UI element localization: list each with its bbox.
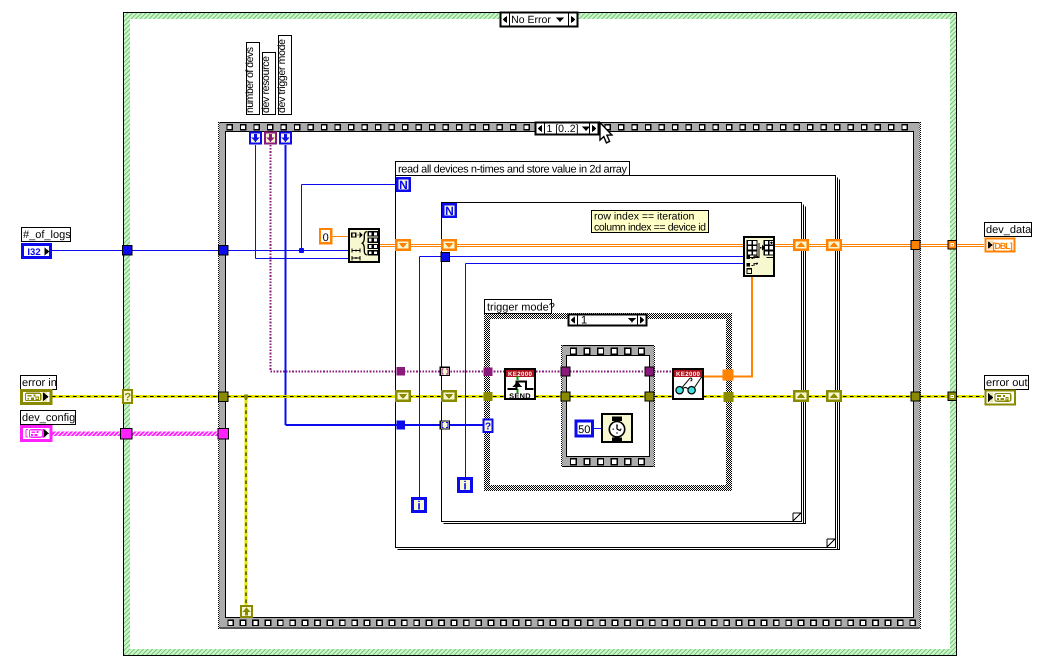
case selector terminal ? (123, 390, 132, 404)
svg-text:dev trigger mode: dev trigger mode (276, 39, 288, 113)
subVI: KE2000 read (673, 369, 703, 399)
svg-text:dev resource: dev resource (260, 56, 272, 113)
sequence selector label: 1 [0..2] (536, 122, 599, 135)
tunnel: error out of case (724, 392, 734, 402)
label: dev trigger mode (276, 36, 292, 115)
control terminal: # of_logs I32 (23, 245, 51, 258)
case selector label: No Error (501, 12, 578, 27)
case selector label: 1 (569, 314, 647, 327)
wire: error cluster main run (52, 395, 984, 398)
svg-text:[DBL]: [DBL] (993, 241, 1013, 251)
svg-text:dev_config: dev_config (22, 412, 75, 424)
sequence local: dev trigger mode (280, 133, 291, 144)
N terminal (inner loop) (443, 204, 456, 218)
comment: row/column index note (592, 211, 709, 234)
case structure: No Error (outer) (124, 13, 957, 656)
tunnel: error out of sequence (911, 392, 920, 401)
svg-text:KE2000: KE2000 (676, 371, 701, 378)
mouse cursor (600, 123, 612, 143)
svg-text:?: ? (124, 392, 131, 404)
wire: error through inner sequence (570, 395, 645, 398)
shift register right (error, outer loop) (827, 391, 841, 401)
function: Initialize Array (349, 229, 379, 262)
tunnel: VISA into case (484, 367, 493, 376)
indexing tunnel: VISA on inner loop (440, 367, 449, 375)
svg-text:50: 50 (578, 424, 590, 436)
svg-text:1 [0..2]: 1 [0..2] (546, 123, 578, 135)
numeric constant 50 (576, 421, 593, 436)
N terminal (outer loop) (397, 178, 410, 192)
label: # of_logs (22, 228, 72, 242)
label: error in (21, 376, 57, 390)
sequence local: number of devs (250, 133, 261, 144)
function: Replace Array Subset (744, 237, 774, 276)
label: trigger mode? (485, 300, 555, 314)
tunnel: error in (inner sequence) (561, 392, 570, 401)
sequence local: error (bottom) (241, 606, 252, 617)
tunnel: VISA array into outer loop (397, 367, 406, 376)
svg-text:KE2000: KE2000 (508, 371, 533, 378)
tunnel: dev_config into sequence (218, 429, 229, 440)
tunnel: VISA out (inner sequence) (645, 367, 654, 376)
wire: error branch to sequence local (244, 394, 248, 606)
tunnel: value out of case (723, 370, 734, 381)
svg-text:read all devices n-times and s: read all devices n-times and store value… (398, 164, 628, 176)
svg-text:#_of_logs: #_of_logs (23, 229, 71, 241)
control terminal: dev_config (22, 427, 52, 441)
tunnel: # of_logs into case (123, 246, 133, 256)
tunnel: # of_logs through sequence (219, 246, 229, 256)
flat sequence structure (outer, frame 1) (218, 122, 921, 629)
tunnel: i wire into inner loop (441, 253, 450, 262)
tunnel: dev_data out of sequence (911, 241, 920, 250)
flat sequence structure (inner wait frame) (561, 345, 655, 467)
label: number of devs (244, 43, 260, 115)
shift register left (error, inner loop) (442, 391, 456, 401)
wire: 0 constant to Initialize Array (332, 236, 348, 238)
label: dev_config (21, 411, 76, 425)
case structure: trigger mode? (484, 313, 732, 491)
svg-text:N: N (399, 178, 408, 192)
svg-text:dev_data: dev_data (986, 224, 1032, 236)
svg-text:I32: I32 (27, 247, 40, 258)
label: read all devices n-times and store value in 2d array (396, 162, 630, 176)
svg-text:1: 1 (581, 315, 587, 327)
tunnel: error out of case (948, 392, 957, 401)
svg-text:number of devs: number of devs (244, 47, 256, 113)
wire: outer loop i to column tunnel (420, 257, 744, 498)
wire: inner loop i to index input (466, 264, 744, 478)
shift register right (error, inner loop) (794, 391, 808, 401)
function: Wait (ms) (602, 414, 632, 442)
svg-text:error out: error out (986, 377, 1028, 389)
wire: # of_logs I32 (52, 185, 396, 254)
label: dev_data (985, 223, 1033, 237)
wire: number of devs sequence local (256, 145, 349, 259)
svg-text:?: ? (485, 421, 491, 432)
shift register left (2D array, outer loop) (396, 240, 410, 250)
svg-text:0: 0 (323, 232, 329, 244)
svg-text:column index == device id: column index == device id (594, 222, 706, 234)
i terminal (inner loop) (458, 478, 471, 492)
for loop: per-device (inner) (442, 203, 807, 525)
tunnel: error out (inner sequence) (645, 392, 654, 401)
svg-text:trigger mode?: trigger mode? (487, 302, 555, 314)
svg-text:i: i (417, 499, 420, 513)
tunnel: trigger array into outer loop (397, 421, 406, 430)
tunnel: error through sequence (219, 392, 229, 402)
indexing tunnel: trigger mode on inner loop (440, 421, 449, 429)
control terminal: error in (22, 391, 52, 404)
svg-text:No Error: No Error (511, 14, 551, 26)
sequence local: dev resource (265, 133, 276, 144)
svg-text:i: i (463, 479, 466, 493)
indicator terminal: dev_data [DBL] (986, 239, 1015, 252)
wire: 2D array (orange double) Initialize Array to Replace Array Subset (380, 245, 743, 247)
shift register left (error, outer loop) (396, 391, 410, 401)
indicator terminal: error out (986, 391, 1016, 405)
shift register right (2D array, outer loop) (827, 240, 841, 250)
wire: 50 ms to Wait (592, 428, 602, 430)
tunnel: error into case (484, 392, 493, 401)
wire: dev resource (VISA array) (271, 145, 673, 372)
wire: VISA through inner sequence (570, 371, 645, 373)
i terminal (outer loop) (412, 498, 425, 512)
label: dev resource (260, 53, 276, 115)
svg-text:error in: error in (22, 377, 57, 389)
wire: dev trigger mode (array) (286, 145, 485, 425)
wire: 2D array out to dev_data (775, 245, 984, 247)
shift register right (2D array, inner loop) (794, 240, 808, 250)
for loop: read all devices n-times (outer) (396, 176, 841, 551)
numeric constant 0 (320, 229, 331, 244)
label: error out (985, 376, 1029, 390)
wire: dev_config (cluster array) (52, 432, 229, 436)
shift register left (2D array, inner loop) (442, 240, 456, 250)
tunnel: VISA in (inner sequence) (561, 367, 570, 376)
subVI: KE2000 SEND (Q2) (505, 369, 535, 400)
tunnel: dev_config into case (121, 429, 133, 440)
wire: measured value KE2000 read to Replace Array Subset (704, 277, 753, 377)
tunnel: dev_data out of case (948, 241, 957, 250)
svg-text:N: N (445, 204, 454, 218)
tunnel: trigger selector ? on case (484, 420, 493, 433)
svg-text:SEND: SEND (509, 391, 531, 400)
